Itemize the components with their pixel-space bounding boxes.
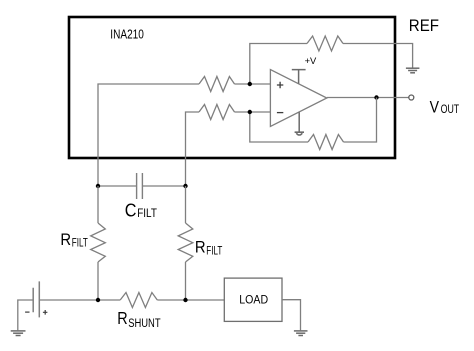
wire LOAD to ground (282, 300, 301, 331)
VOUT open terminal circle (409, 95, 414, 100)
svg-text:REF: REF (409, 16, 439, 35)
node dot IN+ junction (248, 82, 252, 86)
resistor RFILT right (178, 223, 193, 262)
node dot right shunt junction (183, 298, 187, 302)
wire RSHUNT to right shunt node and LOAD (157, 299, 224, 301)
wire from IN+ node up to REF feedback resistor (250, 44, 307, 85)
svg-text:V: V (430, 99, 439, 117)
svg-text:FILT: FILT (206, 243, 222, 257)
node dot IN- junction (248, 110, 252, 114)
op-amp ground lead (298, 112, 300, 132)
resistor feedback bottom (308, 135, 344, 150)
wire battery right lead to shunt node (39, 299, 98, 301)
wire CFILT right segment (142, 185, 185, 187)
op-amp inverting - symbol (277, 112, 283, 114)
wire right column RFILT to shunt node (185, 262, 187, 300)
wire IN- from filter node up and right to input resistor (186, 112, 200, 186)
svg-text:R: R (117, 308, 128, 328)
svg-text:+V: +V (305, 56, 317, 67)
+V supply bar and lead (292, 70, 306, 84)
svg-text:LOAD: LOAD (239, 292, 268, 306)
ground at battery (11, 330, 26, 332)
resistor internal IN- (199, 105, 235, 120)
ground at LOAD (294, 330, 308, 332)
wire shunt node to RSHUNT (98, 299, 120, 301)
wire REF resistor to REF ground (343, 44, 413, 68)
ground at REF pin (406, 67, 420, 69)
wire battery left lead (18, 300, 33, 330)
INA210 device boundary box (69, 17, 395, 158)
node dot output junction (374, 95, 378, 99)
svg-text:SHUNT: SHUNT (128, 316, 161, 330)
node dot right filter node (183, 184, 187, 188)
wire left column RFILT to shunt node (97, 262, 99, 300)
capacitor CFILT plates (137, 173, 143, 199)
resistor internal IN+ (199, 77, 235, 92)
wire CFILT left segment (98, 185, 137, 187)
resistor feedback top (to REF) (307, 36, 343, 51)
op-amp signal ground symbol (295, 132, 304, 135)
op-amp non-inverting + symbol (277, 82, 283, 88)
svg-text:OUT: OUT (441, 104, 460, 116)
battery plus label (43, 310, 48, 315)
resistor RSHUNT (120, 293, 157, 308)
node dot left filter node (96, 184, 100, 188)
battery minus label (25, 311, 29, 313)
LOAD box (224, 278, 282, 321)
wire IN+ resistor to op-amp non-inverting input (235, 83, 271, 85)
svg-text:R: R (60, 230, 71, 249)
svg-text:C: C (125, 201, 137, 221)
wire right column CFILT node to RFILT (185, 186, 187, 223)
battery V1 plates (33, 281, 39, 317)
svg-text:FILT: FILT (72, 235, 88, 249)
wire IN- resistor to op-amp inverting input (235, 111, 271, 113)
svg-text:R: R (195, 238, 206, 257)
resistor RFILT left (91, 223, 106, 262)
wire from IN- node down to feedback resistor (250, 112, 308, 142)
wire IN+ from filter node up and right to input resistor (98, 84, 199, 186)
wire feedback resistor up to output node (344, 98, 377, 143)
node dot left shunt junction (96, 298, 100, 302)
svg-text:INA210: INA210 (110, 28, 144, 42)
wire left column CFILT node to RFILT (97, 186, 99, 223)
wire op-amp output to VOUT terminal (327, 97, 409, 99)
op-amp U1 triangle (270, 70, 326, 127)
svg-text:FILT: FILT (137, 206, 157, 220)
